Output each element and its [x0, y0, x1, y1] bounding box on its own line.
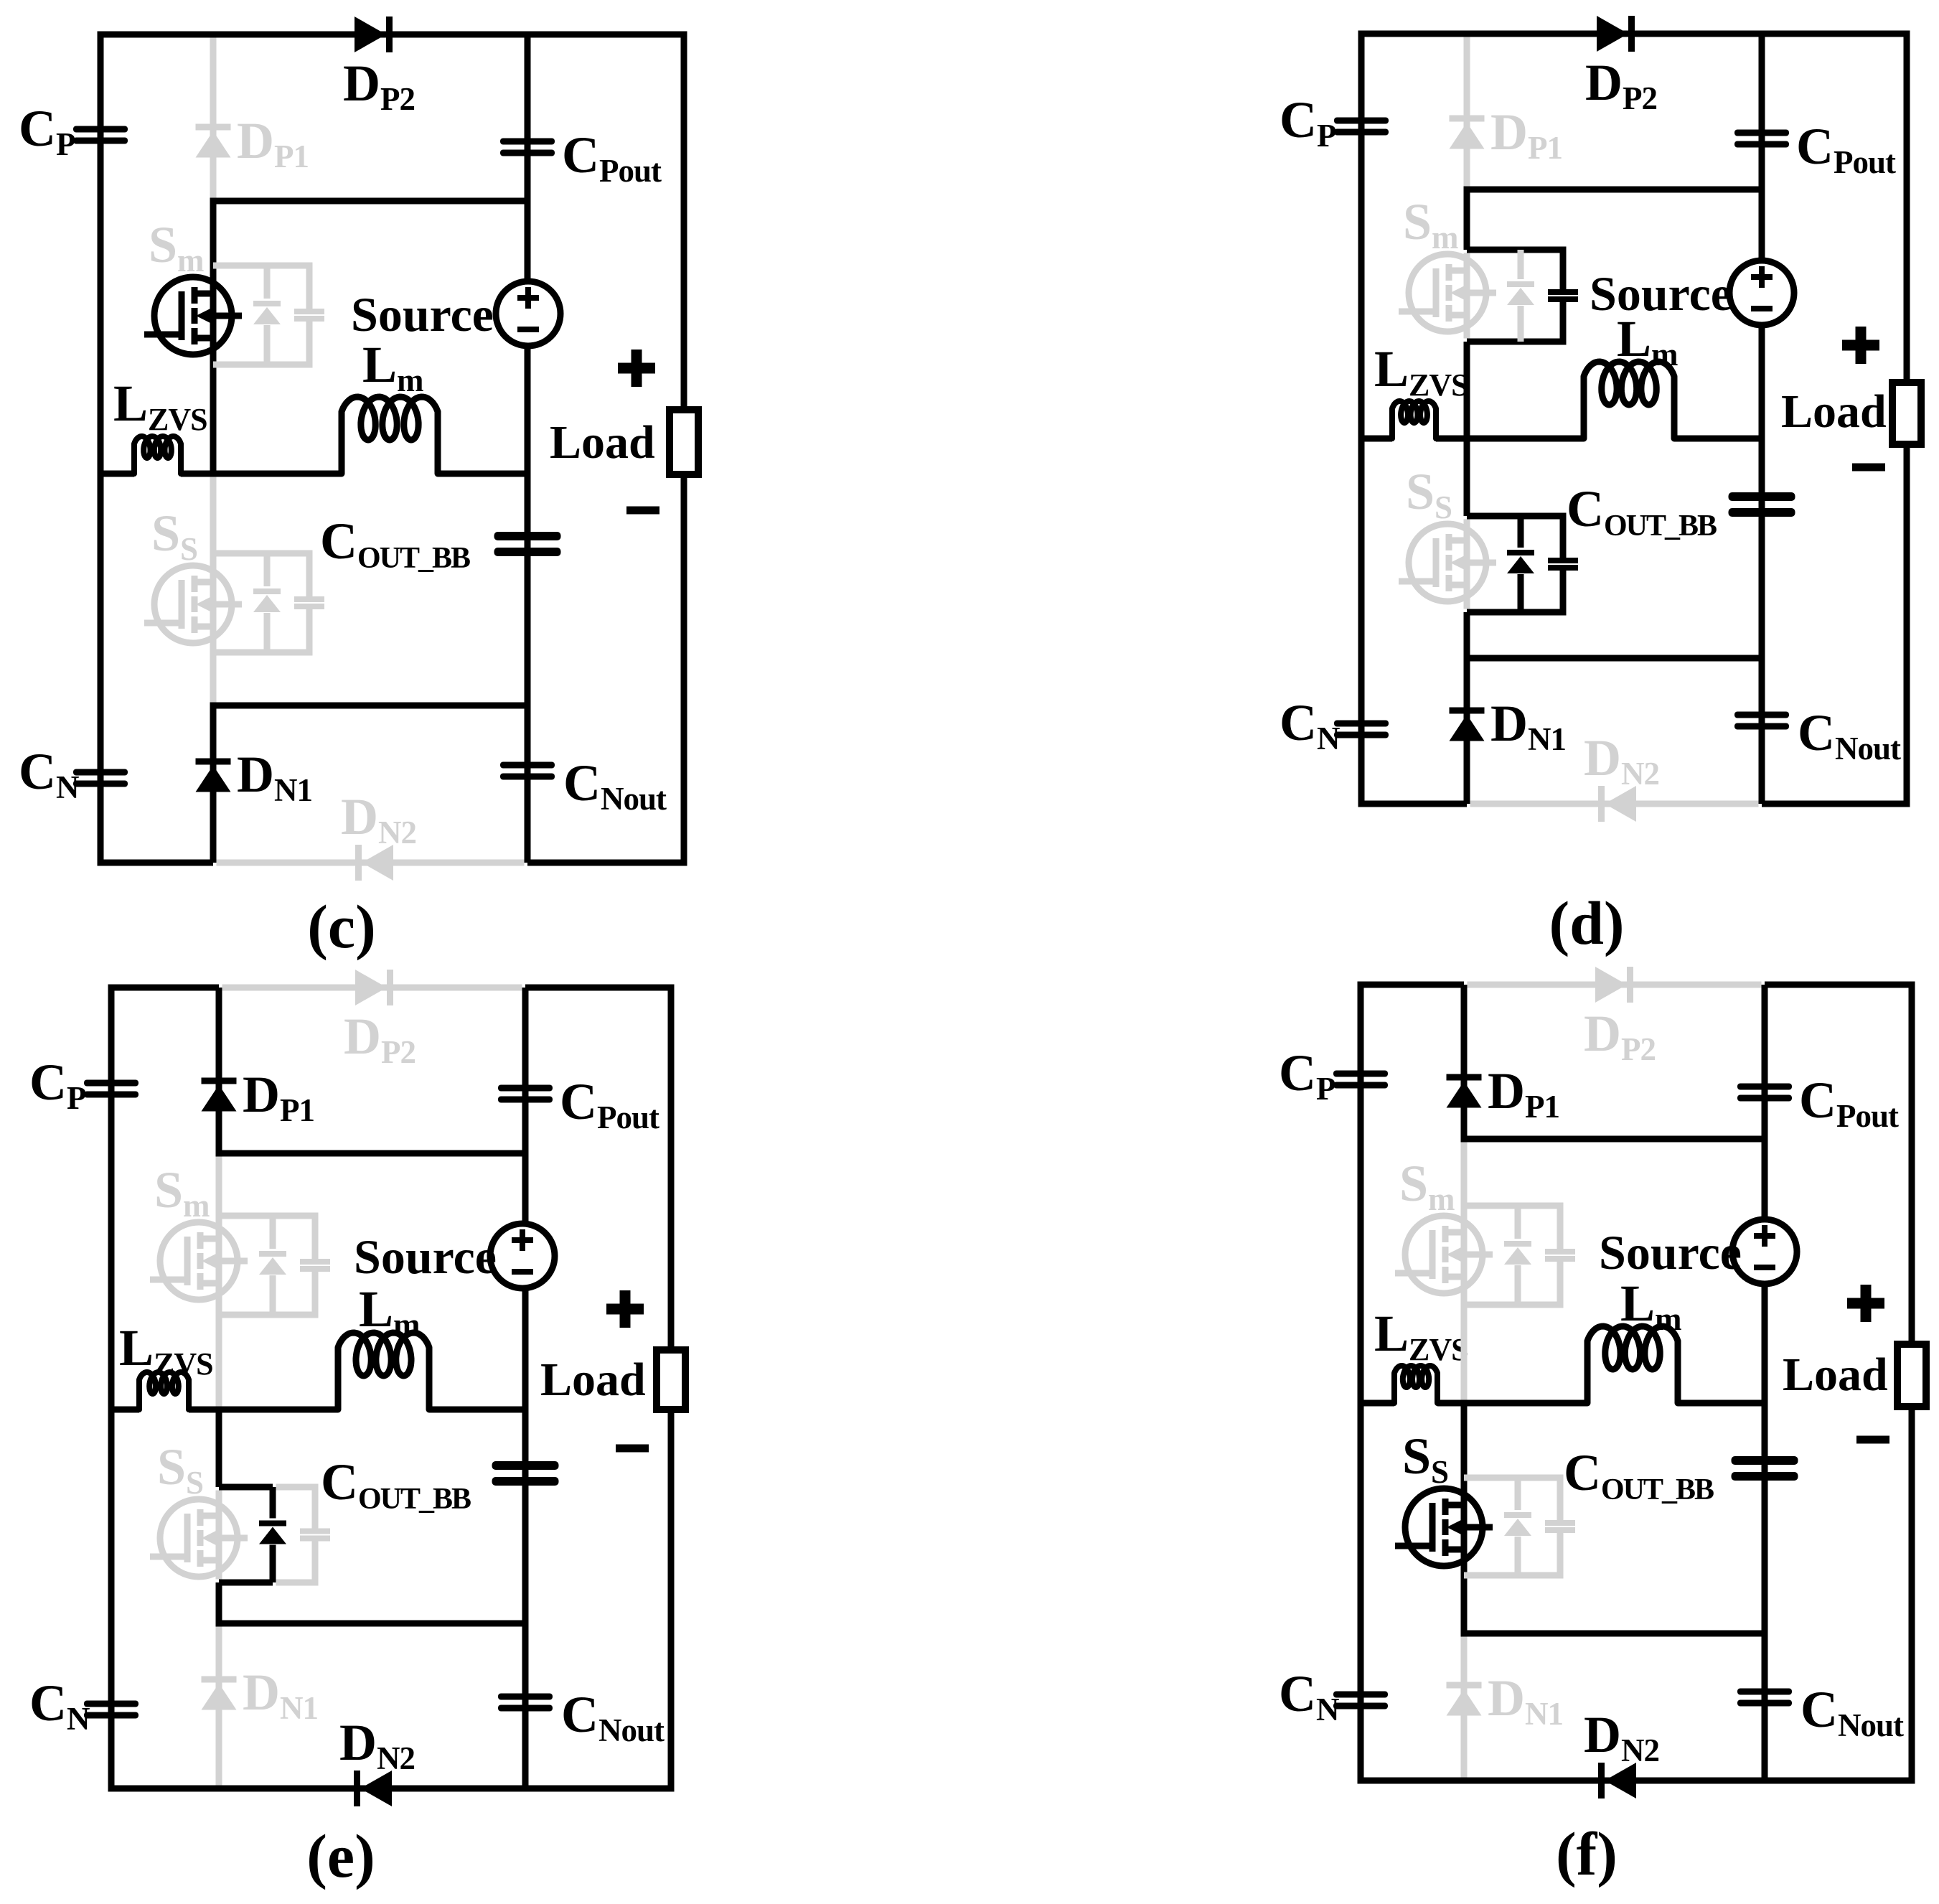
- wire: bottom rail middle segment f: [1464, 1778, 1765, 1784]
- diode DP2 f: [1595, 967, 1627, 1003]
- wire: output column e: [522, 988, 529, 1788]
- source V f: [1732, 1219, 1797, 1284]
- svg-text:Source: Source: [1590, 266, 1732, 321]
- inductor LZVS c: [134, 436, 181, 474]
- wire: node N inner bottom horizontal c: [210, 703, 528, 709]
- wire: top rail left segment f: [1358, 982, 1465, 988]
- diode DN1 c: [196, 759, 231, 765]
- capacitor CN e: [84, 1701, 138, 1707]
- diode DN1 f: [1447, 1682, 1482, 1689]
- inductor Lm d: [1584, 362, 1674, 439]
- transistor Ss f: [1461, 1403, 1468, 1633]
- source V d: [1729, 261, 1794, 325]
- wire: bottom rail right segment d: [1762, 801, 1910, 807]
- resistor Load c: [670, 410, 698, 474]
- minus output polarity c: [626, 507, 659, 515]
- wire: Sm drain link d: [1464, 189, 1470, 250]
- transistor Sm d: [1464, 253, 1470, 339]
- wire: node N inner bottom horizontal e: [216, 1621, 526, 1627]
- diode DN2 (inactive) d: [1598, 786, 1605, 822]
- svg-text:Load: Load: [1781, 385, 1887, 438]
- wire: right rail lower d: [1904, 444, 1910, 807]
- minus output polarity d: [1852, 464, 1885, 472]
- wire: switch node line d: [1361, 436, 1392, 442]
- diode DP1 d: [1450, 116, 1485, 122]
- wire: top rail right segment f: [1765, 982, 1915, 988]
- capacitor COUT_BB f: [1732, 1456, 1798, 1465]
- source V e: [490, 1224, 555, 1288]
- plus output polarity c: [618, 363, 655, 374]
- capacitor COUT_BB c: [494, 532, 561, 540]
- svg-text:(f): (f): [1556, 1819, 1618, 1888]
- wire: left rail e: [108, 988, 115, 1788]
- resistor Load f: [1897, 1344, 1926, 1407]
- body diode / Coss of Sm c: [213, 263, 267, 269]
- diode DP2 d: [1597, 16, 1628, 52]
- diode DN2 (inactive) c: [355, 845, 362, 881]
- capacitor COUT_BB e: [492, 1461, 559, 1470]
- wire: switch node line f: [1361, 1400, 1394, 1407]
- diode DP1 e: [202, 1078, 237, 1084]
- transistor Ss c: [210, 477, 217, 703]
- wire: DN1 branch d: [1464, 658, 1470, 804]
- wire: top rail gray middle segment f: [1468, 982, 1762, 988]
- diode DP1 f: [1447, 1074, 1482, 1081]
- svg-text:(d): (d): [1549, 888, 1624, 957]
- wire: bottom rail left segment c: [98, 860, 214, 866]
- capacitor CN d: [1334, 721, 1389, 727]
- svg-text:Source: Source: [1599, 1225, 1742, 1280]
- capacitor CP f: [1333, 1071, 1388, 1077]
- wire: top rail gray middle segment e: [222, 985, 522, 991]
- transistor Sm c: [210, 201, 217, 474]
- inductor LZVS d: [1392, 401, 1436, 439]
- wire: right rail lower f: [1909, 1407, 1915, 1784]
- transistor Ss d: [1464, 520, 1470, 609]
- wire: bottom rail left segment d: [1358, 801, 1468, 807]
- wire: bottom rail right segment f: [1765, 1778, 1915, 1784]
- svg-text:Load: Load: [550, 416, 655, 469]
- wire: right rail lower e: [668, 1410, 675, 1792]
- body diode / Coss of Sm e: [219, 1213, 273, 1219]
- body diode / Coss of Sm d: [1467, 247, 1521, 253]
- wire: node P inner top horizontal c: [210, 198, 528, 205]
- wire: left rail d: [1358, 34, 1365, 804]
- wire: left rail c: [98, 34, 104, 863]
- diode DN2 f: [1598, 1763, 1605, 1799]
- wire: output column d: [1759, 34, 1765, 804]
- capacitor CNout e: [498, 1694, 553, 1700]
- capacitor CPout f: [1737, 1084, 1792, 1090]
- wire: bottom rail right segment e: [525, 1786, 675, 1792]
- wire: node P inner top horizontal e: [216, 1150, 526, 1157]
- wire: output column f: [1762, 985, 1768, 1781]
- svg-text:(e): (e): [306, 1821, 375, 1890]
- capacitor CPout d: [1734, 130, 1789, 136]
- inductor LZVS f: [1394, 1366, 1437, 1403]
- body diode / Coss of Ss f: [1464, 1475, 1518, 1481]
- plus output polarity f: [1847, 1298, 1884, 1309]
- wire: bottom rail left segment f: [1358, 1778, 1465, 1784]
- wire: DP1 branch c: [210, 38, 217, 198]
- inductor Lm f: [1587, 1326, 1678, 1403]
- svg-text:Source: Source: [354, 1229, 497, 1284]
- wire: bottom rail gray middle segment d: [1470, 801, 1759, 807]
- wire: DP1 branch f: [1461, 985, 1468, 1139]
- wire: switch node line e: [111, 1407, 139, 1413]
- wire: top rail left segment c: [98, 32, 687, 38]
- wire: bottom rail right segment c: [527, 860, 687, 866]
- body diode / Coss of Ss c: [213, 550, 267, 557]
- diode DN1 d: [1450, 708, 1485, 714]
- capacitor CNout d: [1734, 712, 1789, 718]
- capacitor CN c: [73, 769, 128, 776]
- wire: DP1 branch d: [1464, 37, 1470, 187]
- body diode / Coss of Ss e: [219, 1484, 273, 1491]
- diode DP2 c: [355, 17, 386, 52]
- svg-text:Load: Load: [1783, 1349, 1888, 1401]
- capacitor CPout e: [498, 1085, 553, 1092]
- wire: right rail upper c: [681, 34, 687, 410]
- capacitor COUT_BB d: [1729, 492, 1795, 501]
- transistor Sm f: [1461, 1143, 1468, 1400]
- minus output polarity f: [1856, 1436, 1889, 1444]
- svg-text:Load: Load: [540, 1354, 646, 1406]
- wire: node P inner top horizontal d: [1464, 187, 1762, 193]
- inductor LZVS e: [139, 1372, 189, 1410]
- wire: bottom rail gray middle segment c: [217, 860, 525, 866]
- wire: DN1 branch f: [1461, 1637, 1468, 1778]
- capacitor CP c: [73, 126, 128, 133]
- body diode / Coss of Sm f: [1464, 1203, 1518, 1209]
- plus output polarity e: [606, 1304, 644, 1315]
- wire: top rail right segment e: [525, 985, 675, 991]
- svg-text:(c): (c): [307, 892, 375, 961]
- wire: right rail lower c: [681, 474, 687, 866]
- inductor Lm e: [338, 1333, 429, 1410]
- capacitor CN f: [1333, 1692, 1388, 1698]
- wire: switch node line c: [100, 471, 134, 477]
- inductor Lm c: [342, 397, 438, 474]
- wire: node P inner top horizontal f: [1461, 1136, 1765, 1143]
- transistor Sm e: [216, 1157, 222, 1407]
- wire: bottom rail middle segment e: [219, 1786, 525, 1792]
- wire: bottom rail left segment e: [108, 1786, 220, 1792]
- capacitor CNout c: [500, 762, 555, 769]
- svg-text:Source: Source: [351, 287, 494, 342]
- resistor Load d: [1892, 383, 1921, 444]
- wire: output column c: [525, 34, 531, 863]
- capacitor CP e: [84, 1080, 138, 1087]
- wire: DN1 branch e: [216, 1627, 222, 1786]
- wire: right rail upper d: [1904, 34, 1910, 383]
- wire: DN1 branch c: [210, 705, 217, 863]
- transistor Ss e: [216, 1491, 222, 1580]
- resistor Load e: [657, 1350, 685, 1410]
- wire: top rail left segment d: [1358, 31, 1910, 37]
- diode DP2 e: [355, 970, 387, 1005]
- diode DP1 c: [196, 124, 231, 131]
- diode DN2 e: [354, 1771, 360, 1806]
- diode DN1 e: [202, 1676, 237, 1683]
- wire: left rail f: [1358, 985, 1364, 1781]
- wire: right rail upper f: [1909, 985, 1915, 1344]
- wire: node N inner bottom horizontal d: [1464, 655, 1762, 662]
- wire: right rail upper e: [668, 988, 675, 1350]
- minus output polarity e: [616, 1445, 649, 1453]
- wire: top rail left segment e: [108, 985, 220, 991]
- wire: DP1 branch e: [216, 988, 222, 1153]
- wire: node N inner bottom horizontal f: [1461, 1631, 1765, 1637]
- source V c: [496, 281, 560, 346]
- body diode / Coss of Ss d: [1467, 513, 1521, 520]
- capacitor CP d: [1334, 118, 1389, 124]
- capacitor CPout c: [500, 139, 555, 145]
- plus output polarity d: [1842, 340, 1879, 351]
- capacitor CNout f: [1737, 1689, 1792, 1695]
